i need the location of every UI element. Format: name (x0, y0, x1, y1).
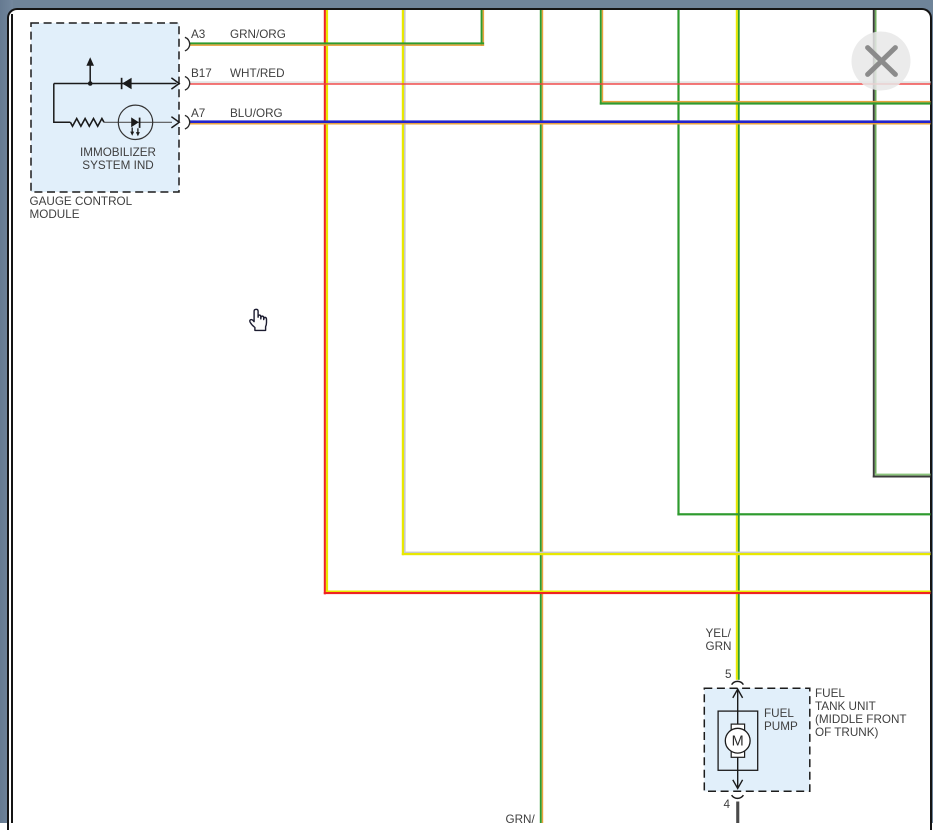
window chrome background (steel blue) (0, 0, 933, 13)
mouse cursor (hand) (250, 309, 267, 330)
label IMMOBILIZER SYSTEM IND (38, 146, 198, 172)
label YEL/GRN (706, 627, 732, 653)
fuel tank unit box (dashed) (704, 688, 810, 791)
wire BLK/GRN vertical (873, 10, 877, 478)
wire B17 WHT/RED horizontal (white band) (190, 81, 931, 83)
junction dot (88, 81, 93, 86)
LED arrows (down) (130, 128, 140, 137)
pin connector arc A3 (185, 37, 190, 51)
diode D1 (pointing left) (122, 78, 132, 89)
wire RED/YEL vertical (324, 10, 328, 594)
label BLU/ORG (230, 107, 283, 120)
wire GRN horizontal (677, 513, 930, 515)
label GAUGE CONTROL MODULE (30, 195, 133, 221)
fuel pump outer rect (718, 711, 758, 770)
label FUEL TANK UNIT (MIDDLE FRONT OF TRUNK) (815, 687, 907, 739)
pin number 5 (725, 668, 732, 681)
resistor (70, 119, 104, 127)
pin 4 connector arc (732, 795, 744, 798)
motor brush top (731, 724, 744, 731)
wire internal left vertical (54, 84, 71, 123)
motor brush bottom (731, 751, 744, 758)
wire BLK/GRN horizontal (873, 474, 931, 478)
wire B17 WHT/RED horizontal (red stripe) (190, 83, 931, 84)
pin arrow B17 (171, 78, 179, 89)
motor M circle (725, 728, 750, 753)
wire RED/YEL horizontal (324, 591, 931, 595)
label A7 (191, 107, 205, 120)
wire YEL/GRN vertical (736, 10, 740, 680)
pin connector arc B17 (185, 77, 190, 91)
wire A7 BLU/ORG horizontal (190, 120, 931, 124)
gauge control module box (dashed) (31, 23, 179, 192)
pin number 4 (724, 798, 731, 811)
label FUEL PUMP (764, 707, 798, 733)
wire GRN vertical (677, 10, 679, 515)
pin 5 connector arc (732, 681, 744, 684)
power arrow (up) (86, 57, 94, 84)
close button (852, 32, 911, 91)
wire GRN/ORG horizontal (second) (600, 101, 931, 105)
wire BLK below fuel tank unit pin 4 (736, 802, 739, 824)
label A3 (191, 28, 205, 41)
wire YEL/WHT vertical (402, 10, 406, 555)
wire internal A7 branch (104, 121, 172, 123)
wire A3 GRN/ORG vertical riser (481, 10, 485, 46)
wire YEL/WHT horizontal (402, 552, 931, 556)
wire GRN/ORG vertical full height (540, 10, 543, 823)
label WHT/RED (230, 67, 285, 80)
svg-text:M: M (732, 734, 744, 750)
pin arrow A7 (171, 117, 179, 128)
label GRN/ (bottom, cut off) (506, 813, 535, 826)
pin 5 arrow (up) into box (733, 689, 743, 711)
wire GRN/ORG vertical (second) (600, 10, 603, 105)
label B17 (191, 67, 212, 80)
wire through pump (737, 711, 739, 770)
LED diode (pointing right) (131, 117, 139, 128)
LED indicator circle (118, 105, 152, 139)
label GRN/ORG (230, 28, 286, 41)
pin connector arc A7 (185, 115, 190, 129)
wire internal B17 branch (54, 83, 177, 85)
wire A3 GRN/ORG horizontal (190, 42, 484, 46)
pin 4 arrow (down) (733, 770, 743, 788)
